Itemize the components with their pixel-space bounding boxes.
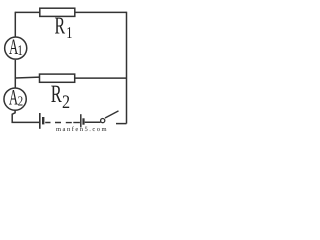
battery cell 2 long plate [80, 114, 82, 127]
wire A2 to bottom corner [12, 111, 39, 123]
label A1 [9, 34, 23, 59]
wire switch to corner [116, 123, 127, 125]
svg-text:2: 2 [62, 92, 70, 113]
wire junction to R2 [15, 76, 39, 79]
wire left upper [14, 12, 16, 37]
svg-text:manfen5.com: manfen5.com [56, 126, 108, 132]
svg-text:A: A [9, 85, 18, 110]
battery cell 1 short plate [42, 117, 44, 124]
wire R2 right [75, 77, 127, 79]
wire right [126, 12, 128, 124]
resistor R1 [40, 8, 75, 16]
ammeter A2 [4, 88, 26, 110]
battery cell 1 long plate [39, 113, 41, 129]
svg-text:R: R [55, 13, 66, 40]
svg-text:1: 1 [17, 43, 22, 59]
resistor R2 [40, 74, 75, 82]
ammeter A1 [5, 37, 27, 59]
battery dashed link [45, 122, 72, 124]
label R2 [51, 81, 70, 113]
wire top [15, 11, 126, 13]
wire dash to cell 2 [73, 122, 80, 124]
label A2 [9, 85, 23, 110]
svg-text:2: 2 [18, 94, 24, 109]
battery cell 2 short plate [82, 118, 84, 124]
switch lever [105, 111, 119, 118]
label R1 [55, 13, 73, 42]
wire junction to A2 [14, 78, 16, 88]
switch pivot circle [101, 119, 105, 123]
svg-text:R: R [51, 81, 62, 108]
wire A1 to junction [14, 60, 16, 78]
wire cell 2 to switch [85, 121, 101, 123]
svg-text:1: 1 [66, 23, 72, 42]
